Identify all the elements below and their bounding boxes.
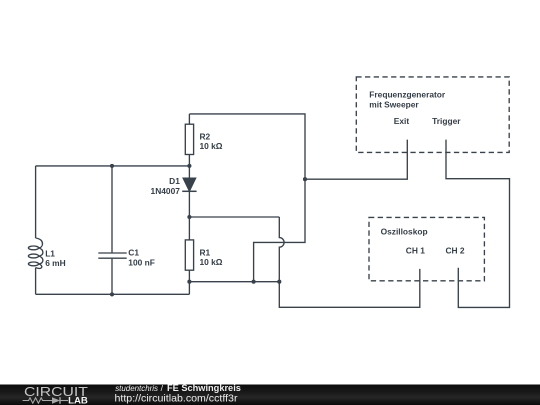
- capacitor C1: [98, 253, 126, 258]
- wire node A to Exit pin: [305, 140, 407, 180]
- wire D1 top lead: [188, 166, 190, 178]
- diode D1: [182, 178, 196, 191]
- resistor R1: [185, 240, 193, 270]
- svg-text:100 nF: 100 nF: [128, 257, 155, 267]
- resistor R2: [185, 124, 193, 154]
- node hop vertical: [277, 280, 281, 284]
- svg-text:Trigger: Trigger: [432, 116, 461, 126]
- node D1/R1: [187, 215, 191, 219]
- svg-text:LAB: LAB: [68, 396, 88, 405]
- wire C1 bottom lead: [111, 258, 113, 294]
- svg-text:D1: D1: [169, 176, 180, 186]
- inductor L1: [28, 238, 43, 268]
- node R2/D1: [187, 164, 191, 168]
- wire node A down-left to node B: [254, 179, 305, 282]
- wire R2 bottom lead: [188, 155, 190, 166]
- svg-text:R2: R2: [200, 132, 211, 142]
- wire R1 top lead: [188, 217, 190, 240]
- wire R2 top lead: [188, 114, 190, 124]
- wire top loop from R2 top to node A: [189, 114, 305, 179]
- node R1 bottom: [187, 280, 191, 284]
- wire horizontal L1/C1 top rail: [36, 165, 190, 167]
- svg-text:Exit: Exit: [394, 116, 410, 126]
- node C1 bottom: [110, 292, 114, 296]
- svg-text:mit Sweeper: mit Sweeper: [369, 99, 419, 109]
- box Oszilloskop: [369, 217, 484, 280]
- wire L1 top lead: [35, 166, 37, 238]
- svg-text:1N4007: 1N4007: [151, 186, 181, 196]
- svg-text:Oszilloskop: Oszilloskop: [381, 227, 428, 237]
- footer bar: [0, 385, 540, 405]
- logo resistor zigzag: [23, 398, 52, 403]
- box Frequenzgenerator: [356, 77, 509, 152]
- node C1 top: [110, 164, 114, 168]
- svg-text:C1: C1: [128, 248, 139, 258]
- wire R1 bottom to bottom rail: [188, 282, 190, 295]
- svg-text:studentchris: studentchris: [115, 383, 158, 393]
- wire mid rail y217: [189, 216, 279, 218]
- svg-text:L1: L1: [45, 248, 55, 258]
- svg-text:CH 1: CH 1: [406, 246, 425, 256]
- node A: [303, 177, 307, 181]
- wire L1 bottom lead: [35, 268, 37, 295]
- wire D1 bottom lead: [188, 191, 190, 217]
- svg-text:10 kΩ: 10 kΩ: [200, 257, 223, 267]
- svg-text:http://circuitlab.com/cctff3r: http://circuitlab.com/cctff3r: [115, 393, 239, 404]
- svg-text:Frequenzgenerator: Frequenzgenerator: [369, 90, 446, 100]
- wire Trigger to CH2: [446, 140, 510, 308]
- svg-text:R1: R1: [200, 247, 211, 257]
- svg-text:FE Schwingkreis: FE Schwingkreis: [167, 383, 241, 393]
- wire vertical with hop to CH1: [279, 217, 420, 307]
- svg-text:10 kΩ: 10 kΩ: [200, 141, 223, 151]
- svg-text:CH 2: CH 2: [446, 246, 465, 256]
- logo diode symbol: [52, 397, 68, 404]
- wire bottom rail: [36, 293, 190, 295]
- node B: [252, 280, 256, 284]
- svg-text:6 mH: 6 mH: [45, 258, 65, 268]
- wire horizontal y281.7: [189, 281, 279, 283]
- wire R1 bottom lead: [188, 270, 190, 282]
- wire C1 top lead: [111, 166, 113, 253]
